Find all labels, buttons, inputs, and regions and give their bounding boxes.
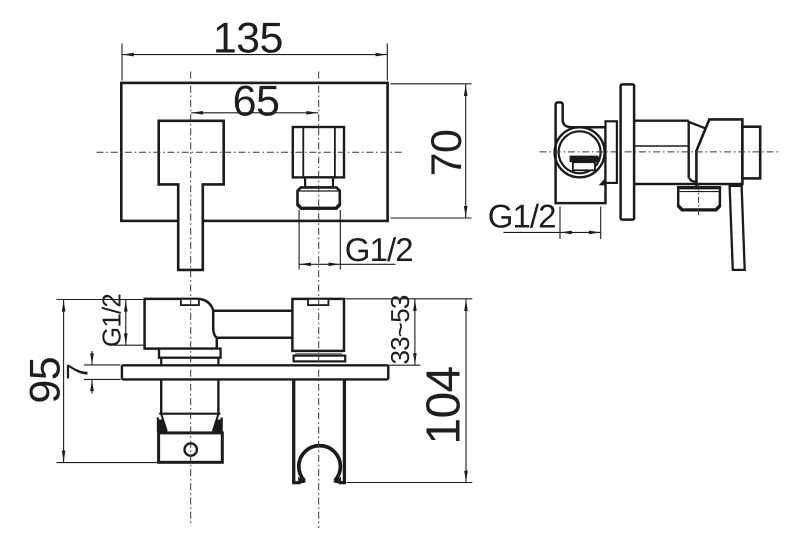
- shower holder body: [292, 379, 295, 482]
- dimension G1/2 front: [298, 210, 300, 270]
- dimension 95: [57, 299, 145, 301]
- dimension 65: [191, 112, 318, 114]
- svg-text:G1/2: G1/2: [97, 294, 127, 348]
- svg-text:65: 65: [233, 77, 280, 125]
- bottom knob screw circle: [185, 443, 197, 455]
- bottom right thin ring line: [295, 353, 342, 355]
- bottom connecting bar: [213, 309, 292, 312]
- dimension G1/2 bottom: [114, 344, 144, 346]
- svg-text:G1/2: G1/2: [488, 198, 556, 235]
- side cartridge circle inner: [559, 131, 601, 173]
- bottom wall plate: [122, 365, 388, 379]
- svg-text:104: 104: [418, 366, 471, 444]
- centerline: front+bottom outlet axis: [318, 72, 320, 529]
- dimension 104: [347, 482, 473, 484]
- side outlet neck: [690, 178, 696, 182]
- dimension 7: [84, 364, 121, 366]
- centerline: side view outlet vertical: [698, 185, 700, 218]
- front wall plate: [121, 83, 387, 221]
- bottom right locking ring: [294, 356, 346, 362]
- bottom handle knob: [159, 433, 223, 462]
- svg-text:G1/2: G1/2: [345, 231, 413, 268]
- side cartridge slot: [570, 156, 599, 163]
- front outlet neck: [305, 177, 333, 187]
- bottom left neck: [160, 358, 162, 366]
- centerline: front view horizontal: [97, 151, 403, 153]
- bottom handle stem: [160, 379, 162, 413]
- side handle knob: [696, 119, 742, 184]
- front handle (square knob with lever): [159, 121, 224, 270]
- dimension G1/2 side: [559, 207, 561, 240]
- side wall plate: [621, 84, 635, 219]
- front outlet body: [293, 127, 344, 177]
- dimension 33~53: [346, 298, 473, 300]
- side body tube: [634, 119, 689, 121]
- bottom view left valve body: [145, 299, 217, 349]
- side corner wedge: [599, 178, 606, 186]
- side flange ring: [606, 121, 617, 183]
- front outlet G1/2 nut: [298, 187, 340, 208]
- side cartridge circle outer: [555, 127, 605, 177]
- side handle crease: [689, 122, 705, 128]
- dimension 70: [391, 83, 472, 85]
- bottom handle collar taper: [161, 414, 167, 431]
- centerline: side view horizontal: [540, 151, 780, 153]
- svg-text:33~53: 33~53: [385, 295, 415, 364]
- svg-text:70: 70: [423, 130, 471, 177]
- dimension 135: [121, 44, 123, 81]
- bottom view right outlet body: [292, 299, 344, 351]
- side body block with bracket tab: [556, 102, 606, 203]
- shower holder C ring: [299, 446, 341, 481]
- bottom right body notch: [308, 299, 328, 305]
- bottom left flange: [159, 349, 221, 358]
- svg-text:7: 7: [62, 363, 95, 380]
- side outlet nut: [678, 187, 720, 210]
- side handle end cap: [742, 127, 760, 179]
- centerline: front+bottom handle axis: [190, 72, 192, 526]
- side lever bar: [730, 186, 745, 270]
- front outlet inner lines: [302, 127, 304, 177]
- bottom left body notch: [181, 299, 199, 305]
- svg-text:135: 135: [213, 15, 283, 63]
